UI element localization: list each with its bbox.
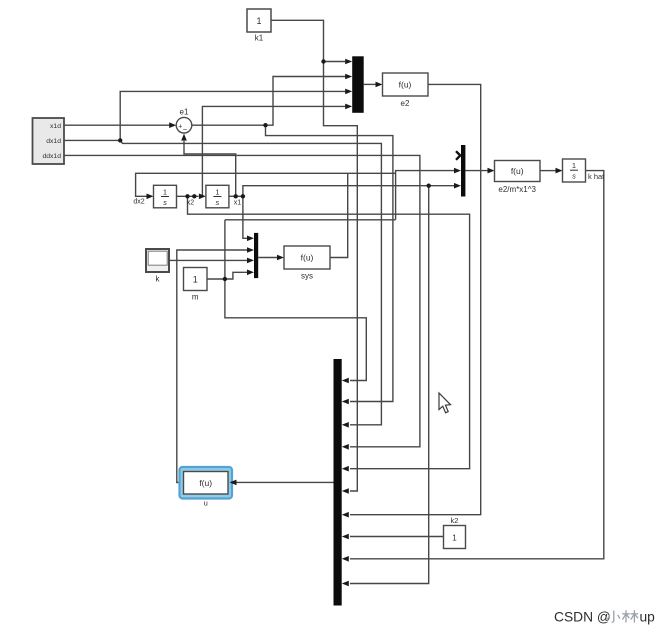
wire dx1d jog right to big mux input3	[120, 140, 381, 424]
svg-text:1: 1	[572, 161, 576, 170]
integrator khat	[563, 159, 606, 182]
arrow into mux2 in1	[247, 236, 254, 242]
svg-text:x1: x1	[234, 200, 242, 207]
wire m horizontal	[225, 219, 396, 221]
wire x2 branch down right to big mux input5	[188, 196, 470, 468]
wire mux2 output to sys	[258, 257, 277, 259]
svg-text:e2: e2	[401, 99, 410, 108]
arrow into integrator1	[147, 194, 154, 200]
mux2 bar	[254, 233, 258, 278]
junction x1 branch a	[234, 194, 238, 198]
arrow into big mux in4	[342, 444, 349, 450]
big mux bar	[334, 359, 342, 606]
svg-text:x1d: x1d	[50, 123, 61, 130]
arrow into mux1 in2	[345, 74, 352, 80]
wire mux3 output to e2m	[465, 170, 488, 172]
arrow into big mux in5	[342, 466, 349, 472]
arrow into mux3 in3	[454, 183, 461, 189]
svg-text:CSDN @: CSDN @	[554, 610, 611, 625]
arrow into big mux in9	[342, 556, 349, 562]
svg-text:s: s	[216, 198, 220, 207]
junction x2 branch a	[185, 194, 189, 198]
wire m output	[207, 272, 248, 279]
scope block k	[146, 249, 169, 284]
svg-text:up: up	[640, 610, 656, 625]
junction e1 output	[263, 123, 267, 127]
svg-text:s: s	[163, 198, 167, 207]
wire dx2 feedback into integrator1	[136, 173, 396, 196]
arrow into big mux in3	[342, 422, 349, 428]
arrow into e2	[376, 82, 383, 88]
integrator 2	[206, 185, 229, 208]
svg-text:x2: x2	[187, 200, 195, 207]
svg-text:f(u): f(u)	[199, 478, 212, 488]
wire k block to mux2 input3	[169, 259, 248, 261]
source block x1d dx1d ddx1d	[33, 118, 65, 164]
wire m vertical to mux3 input2	[396, 171, 455, 220]
wire x2 branch up to mux1 input4	[202, 106, 345, 196]
svg-text:e2/m*x1^3: e2/m*x1^3	[498, 185, 536, 194]
svg-text:u: u	[204, 499, 208, 508]
wire k1 branch down to big mux input6	[324, 62, 358, 492]
watermark glyph lin	[625, 610, 627, 622]
svg-text:dx2: dx2	[133, 199, 144, 206]
svg-text:ddx1d: ddx1d	[42, 153, 61, 160]
wire e2m output to khat	[540, 170, 556, 172]
svg-text:k1: k1	[255, 34, 264, 43]
arrow into mux1 in4	[345, 104, 352, 110]
wire x1 up to mux3 input3	[243, 186, 455, 197]
svg-text:f(u): f(u)	[511, 166, 524, 176]
svg-text:1: 1	[452, 534, 457, 543]
wire e1 to mux1 input2	[266, 77, 346, 126]
svg-text:k2: k2	[451, 516, 459, 525]
svg-text:k hat: k hat	[588, 172, 605, 181]
junction x1 to big mux	[427, 184, 431, 188]
constant block m	[184, 268, 208, 302]
wire khat output down to big mux input9	[350, 171, 604, 559]
svg-text:s: s	[572, 172, 576, 181]
wire k2 output to big mux input8	[350, 536, 444, 538]
arrow into khat	[556, 168, 563, 174]
arrow into sys	[277, 255, 284, 261]
wire e2 output down to big mux input7	[350, 84, 481, 514]
wire x1 down from junction to big mux input10	[350, 186, 429, 584]
arrow into mux2 in2	[247, 247, 254, 253]
wire x1 feedback to e1 minus input	[184, 141, 236, 196]
watermark CSDN	[554, 610, 611, 625]
wire dx1d main	[64, 139, 120, 141]
svg-text:1: 1	[256, 16, 261, 26]
svg-text:1: 1	[163, 188, 167, 197]
arrow into mux3 in2	[454, 168, 461, 174]
watermark glyph xiao	[612, 611, 614, 623]
fcn block e2	[383, 73, 429, 108]
junction dx1d branch	[118, 138, 122, 142]
arrow into mux1 in3	[345, 89, 352, 95]
svg-text:+: +	[178, 124, 182, 131]
wire k1 output to mux1 input1	[271, 20, 324, 61]
fcn block u selected	[180, 467, 233, 508]
sum block e1	[176, 108, 192, 135]
arrow into e1 plus	[169, 122, 176, 128]
arrow into e2m	[488, 168, 495, 174]
arrow into integrator2	[199, 194, 206, 200]
fcn block e2m	[495, 161, 541, 195]
wire sys output up to dx2 line	[330, 173, 348, 257]
wire k1 to mux1 stub	[324, 61, 346, 63]
arrow into mux1 in1	[345, 59, 352, 65]
wire u output up to mux2 input2	[177, 250, 248, 483]
junction k1 branch	[321, 59, 325, 63]
wire m branch up	[224, 220, 226, 279]
open port chevron mux3 in1	[456, 151, 460, 160]
arrow into big mux in10	[342, 581, 349, 587]
arrow into big mux in1	[342, 378, 349, 384]
arrow into big mux in2	[342, 399, 349, 405]
svg-text:1: 1	[193, 275, 198, 285]
wire ddx1d to big mux input4	[64, 155, 420, 446]
wire m branch down to big mux input1	[225, 279, 366, 381]
svg-text:k: k	[156, 275, 161, 284]
svg-text:e1: e1	[180, 108, 189, 117]
svg-text:dx1d: dx1d	[46, 138, 61, 145]
wire e1 output	[192, 124, 266, 126]
arrow into e1 minus from below	[181, 134, 187, 141]
wire x1 down to mux2 input1	[243, 196, 248, 238]
constant block k2	[444, 516, 466, 549]
wire mux1 output to e2	[364, 83, 376, 85]
junction x1 branch b	[241, 194, 245, 198]
arrow into big mux in6	[342, 488, 349, 494]
arrow into big mux in7	[342, 512, 349, 518]
svg-text:−: −	[183, 125, 188, 134]
arrowheads	[147, 59, 563, 587]
wire e1 branch down to big mux input2	[266, 125, 393, 401]
arrow into big mux in8	[342, 534, 349, 540]
arrow into mux2 in4	[247, 270, 254, 276]
svg-text:f(u): f(u)	[399, 80, 412, 90]
junction m output	[223, 277, 227, 281]
wire big mux output to u block	[236, 481, 334, 483]
wire x2 between integrators	[177, 195, 199, 197]
arrow into u block	[230, 480, 237, 486]
wire x1 output row	[229, 195, 243, 197]
svg-text:m: m	[192, 293, 199, 302]
wire dx1d branch up to mux1 input3	[120, 91, 345, 140]
fcn block sys	[284, 246, 330, 281]
mouse cursor	[439, 393, 451, 413]
svg-text:sys: sys	[301, 272, 313, 281]
wire x1d to sum e1	[64, 124, 170, 126]
junction x2 branch b	[192, 194, 196, 198]
constant block k1	[247, 9, 271, 43]
svg-text:f(u): f(u)	[301, 253, 314, 263]
arrow into mux2 in3	[247, 258, 254, 264]
integrator 1	[154, 185, 177, 208]
svg-text:1: 1	[215, 188, 219, 197]
mux1 bar	[352, 56, 364, 113]
mux3 bar	[461, 145, 465, 197]
